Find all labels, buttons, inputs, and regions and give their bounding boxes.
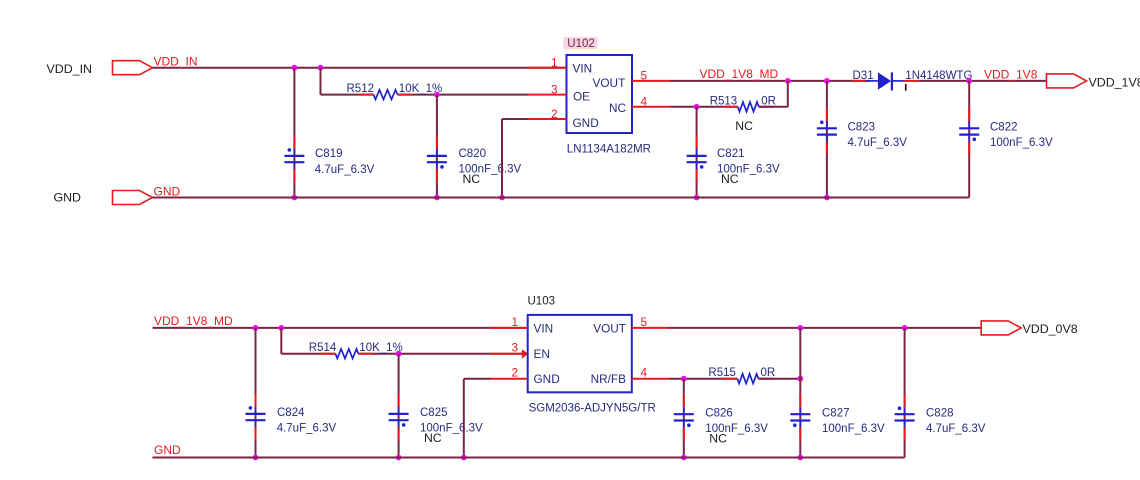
IC U103 box: [528, 315, 632, 392]
svg-text:GND: GND: [53, 191, 81, 205]
node C826 / GND junction: [681, 455, 687, 461]
svg-text:C822: C822: [990, 121, 1018, 133]
node NR/FB / C826 junction: [681, 376, 687, 382]
capacitor C822: [959, 108, 1053, 154]
wire R514 branch vertical: [280, 328, 282, 354]
capacitor C821: [687, 136, 780, 186]
svg-text:C819: C819: [315, 148, 343, 160]
capacitor C823: [817, 108, 907, 154]
svg-text:NC: NC: [735, 119, 753, 133]
port VDD_1V8: [1047, 74, 1140, 89]
wire C820 branch: [436, 95, 438, 198]
svg-text:VDD_1V8: VDD_1V8: [984, 67, 1038, 81]
svg-text:2: 2: [551, 107, 558, 121]
resistor R515: [708, 367, 775, 383]
node rail / R514 junction: [278, 325, 284, 331]
svg-text:NR/FB: NR/FB: [591, 372, 627, 386]
resistor R513: [710, 95, 776, 111]
svg-text:C825: C825: [420, 407, 448, 419]
wire R514 to EN: [358, 353, 522, 355]
svg-text:C820: C820: [459, 148, 487, 160]
pin 3 EN arrow: [522, 349, 528, 358]
svg-text:R512: R512: [347, 83, 375, 95]
wire NR/FB rail: [670, 378, 737, 380]
svg-text:GND: GND: [154, 443, 181, 457]
svg-text:C824: C824: [277, 407, 305, 419]
node C825 / GND junction: [396, 455, 402, 461]
wire C819 branch: [293, 68, 295, 198]
port GND: [53, 191, 152, 205]
wire GND pin2 route vertical: [501, 119, 503, 198]
node VDD_IN / R512 junction: [318, 65, 324, 71]
svg-text:NC: NC: [463, 172, 481, 186]
node R512 / C820 junction: [434, 92, 440, 98]
svg-text:3: 3: [551, 82, 558, 96]
svg-text:1: 1: [551, 56, 558, 70]
svg-text:VDD_0V8: VDD_0V8: [1023, 322, 1078, 336]
svg-text:0R: 0R: [761, 95, 776, 107]
svg-text:0R: 0R: [761, 367, 776, 379]
wire pin4 to R513: [671, 106, 738, 108]
wire R515 to C827 node: [758, 378, 800, 380]
svg-text:VOUT: VOUT: [593, 76, 626, 90]
svg-text:C821: C821: [717, 148, 745, 160]
IC U102 box: [567, 55, 633, 133]
capacitor C820: [427, 136, 522, 186]
wire diode to port: [919, 80, 1047, 82]
wire C821 branch: [696, 107, 698, 198]
svg-text:VDD_IN: VDD_IN: [154, 54, 198, 68]
node VDD_IN / C819 junction: [292, 65, 298, 71]
net label VDD_1V8_MD: [700, 67, 779, 81]
wire R512 branch vertical: [320, 68, 322, 95]
wire R512 branch horizontal: [321, 94, 374, 96]
node VDD_1V8 / C822 junction: [966, 78, 972, 84]
port VDD_0V8: [981, 321, 1078, 336]
pin 2 GND stub (U103): [490, 366, 560, 387]
svg-text:3: 3: [511, 341, 518, 355]
svg-text:VDD_1V8_MD: VDD_1V8_MD: [700, 67, 779, 81]
node C823 / GND junction: [824, 195, 830, 201]
node R515 / C827 junction: [797, 376, 803, 382]
wire GND bottom rail: [153, 457, 905, 459]
svg-text:C827: C827: [822, 407, 850, 419]
svg-text:EN: EN: [534, 347, 550, 361]
svg-text:100nF_6.3V: 100nF_6.3V: [990, 137, 1053, 149]
svg-text:C828: C828: [926, 407, 954, 419]
resistor R512: [347, 83, 443, 99]
svg-text:C826: C826: [705, 407, 733, 419]
svg-text:U103: U103: [528, 296, 556, 308]
node rail / C823 junction: [824, 78, 830, 84]
node rail / C824 junction: [253, 325, 259, 331]
svg-text:U102: U102: [567, 38, 595, 50]
pin 1 VIN stub: [528, 56, 592, 76]
svg-text:5: 5: [641, 315, 648, 329]
wire GND rail: [153, 197, 970, 199]
pin 4 NC stub: [609, 95, 671, 116]
wire C823 branch: [826, 81, 828, 198]
pin 5 VOUT stub: [593, 69, 671, 91]
capacitor C824: [246, 394, 337, 440]
svg-text:4.7uF_6.3V: 4.7uF_6.3V: [848, 137, 908, 149]
capacitor C827: [790, 394, 885, 440]
pin 2 GND stub: [528, 107, 599, 130]
svg-text:NC: NC: [721, 172, 739, 186]
capacitor C826: [674, 394, 768, 445]
pin 1 VIN stub (U103): [490, 315, 553, 336]
part number LN1134A182MR: [567, 144, 651, 156]
wire C827 branch: [799, 328, 801, 458]
wire C822 branch: [968, 81, 970, 198]
svg-text:LN1134A182MR: LN1134A182MR: [567, 144, 651, 156]
wire GND pin2 route (U103) vertical: [463, 379, 465, 458]
svg-text:VDD_1V8: VDD_1V8: [1089, 75, 1140, 89]
svg-text:1: 1: [511, 315, 518, 329]
svg-text:2: 2: [511, 366, 518, 380]
svg-text:4: 4: [641, 95, 648, 109]
svg-text:OE: OE: [573, 89, 590, 103]
svg-text:C823: C823: [848, 121, 876, 133]
part number SGM2036-ADJYN5G/TR: [529, 402, 656, 414]
wire C826 branch: [683, 379, 685, 458]
wire C825 branch: [398, 354, 400, 458]
node pin4 / C821 junction: [694, 104, 700, 110]
wire C828 branch: [904, 328, 906, 458]
refdes U103: [528, 296, 556, 308]
node C821 / GND junction: [694, 195, 700, 201]
wire GND pin2 route (U103) horizontal: [464, 378, 490, 380]
node C824 / GND junction: [253, 455, 259, 461]
svg-text:GND: GND: [154, 184, 181, 198]
diode D31: [852, 70, 973, 91]
wire VDD_1V8_MD bottom rail: [153, 327, 528, 329]
svg-text:GND: GND: [573, 116, 599, 130]
net label VDD_1V8: [984, 67, 1038, 81]
pin 4 NR/FB stub (U103): [591, 366, 670, 387]
node rail / C828 junction: [902, 325, 908, 331]
svg-text:R513: R513: [710, 95, 738, 107]
capacitor C819: [284, 136, 374, 182]
wire R513 to rail corner: [759, 81, 788, 107]
net label GND (bottom): [154, 443, 181, 457]
wire VDD_1V8_MD rail: [671, 80, 870, 82]
svg-text:4.7uF_6.3V: 4.7uF_6.3V: [315, 164, 375, 176]
svg-text:4.7uF_6.3V: 4.7uF_6.3V: [277, 423, 337, 435]
port VDD_IN: [47, 61, 153, 76]
svg-text:5: 5: [641, 69, 648, 83]
svg-text:VDD_IN: VDD_IN: [47, 62, 92, 76]
node R514 / C825 junction: [396, 351, 402, 357]
svg-text:NC: NC: [709, 432, 727, 446]
label NC for R513: [735, 119, 753, 133]
node C827 / GND junction: [797, 455, 803, 461]
svg-text:VIN: VIN: [534, 321, 554, 335]
svg-text:NC: NC: [609, 101, 627, 115]
resistor R514: [309, 342, 403, 358]
svg-text:VOUT: VOUT: [593, 321, 626, 335]
svg-text:R514: R514: [309, 342, 337, 354]
net label VDD_1V8_MD (bottom): [154, 314, 233, 328]
wire GND pin2 route horizontal: [502, 118, 528, 120]
wire VDD_0V8 rail: [670, 327, 981, 329]
node pin2 route / GND junction (U103): [461, 455, 467, 461]
pin 5 VOUT stub (U103): [593, 315, 670, 336]
node C820 / GND junction: [434, 195, 440, 201]
net label VDD_IN: [154, 54, 198, 68]
node rail / C827 junction: [797, 325, 803, 331]
node rail / R513 vertical junction: [785, 78, 791, 84]
svg-text:NC: NC: [424, 431, 442, 445]
net label GND: [154, 184, 181, 198]
capacitor C828: [895, 394, 986, 440]
op-amp U1 highlight / refdes U102: [564, 37, 598, 50]
node C819 / GND junction: [292, 195, 298, 201]
svg-text:R515: R515: [708, 367, 736, 379]
svg-text:4.7uF_6.3V: 4.7uF_6.3V: [926, 423, 986, 435]
capacitor C825: [389, 394, 483, 445]
svg-text:D31: D31: [853, 70, 874, 82]
diode pin marker I: [905, 84, 907, 91]
svg-text:GND: GND: [534, 372, 560, 386]
pin 3 OE stub: [528, 82, 590, 103]
wire VDD_IN rail: [153, 67, 567, 69]
svg-text:VDD_1V8_MD: VDD_1V8_MD: [154, 314, 233, 328]
node pin2 route / GND junction: [499, 195, 505, 201]
svg-text:SGM2036-ADJYN5G/TR: SGM2036-ADJYN5G/TR: [529, 402, 656, 414]
svg-text:4: 4: [641, 366, 648, 380]
pin 3 EN stub (U103): [490, 341, 550, 362]
wire C824 branch: [255, 328, 257, 458]
svg-text:100nF_6.3V: 100nF_6.3V: [822, 423, 885, 435]
svg-text:VIN: VIN: [573, 61, 593, 75]
wire R514 branch horizontal: [281, 353, 335, 355]
wire R512 to OE: [398, 94, 529, 96]
